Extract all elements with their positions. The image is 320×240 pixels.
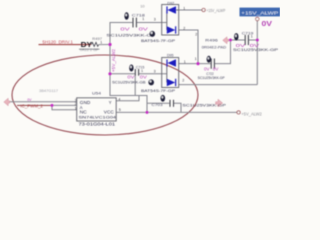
svg-text:1: 1 bbox=[183, 6, 185, 10]
svg-text:SN74LVC1G04: SN74LVC1G04 bbox=[79, 115, 118, 120]
svg-text:1: 1 bbox=[184, 60, 186, 64]
svg-text:U54: U54 bbox=[92, 91, 102, 96]
svg-text:0V: 0V bbox=[27, 98, 32, 102]
svg-text:IC_PWM_2: IC_PWM_2 bbox=[20, 104, 43, 109]
svg-text:1: 1 bbox=[100, 41, 102, 45]
svg-text:+5V_ALW2: +5V_ALW2 bbox=[111, 48, 116, 72]
svg-text:3: 3 bbox=[154, 70, 156, 74]
svg-text:BAT54S-7F-GP: BAT54S-7F-GP bbox=[141, 88, 175, 93]
svg-text:SC1U25V3KK-GB: SC1U25V3KK-GB bbox=[112, 80, 146, 85]
svg-text:0V: 0V bbox=[213, 67, 219, 73]
svg-text:SC1U25V3KK-GP: SC1U25V3KK-GP bbox=[233, 47, 278, 52]
svg-text:2: 2 bbox=[182, 79, 184, 83]
svg-text:+5V_ALW2: +5V_ALW2 bbox=[241, 111, 262, 116]
svg-text:5H120_DRIV.1: 5H120_DRIV.1 bbox=[42, 40, 73, 45]
svg-text:2: 2 bbox=[183, 26, 185, 30]
svg-text:0V: 0V bbox=[262, 19, 274, 28]
svg-text:R496: R496 bbox=[205, 38, 219, 43]
svg-text:SC1U25V3KK-GP: SC1U25V3KK-GP bbox=[182, 102, 226, 107]
svg-text:10: 10 bbox=[140, 3, 145, 8]
svg-text:2: 2 bbox=[195, 32, 197, 36]
svg-text:Y: Y bbox=[109, 100, 112, 105]
svg-text:C703: C703 bbox=[152, 102, 164, 107]
svg-text:BAT54S-7F-GP: BAT54S-7F-GP bbox=[141, 38, 175, 43]
svg-text:VCC: VCC bbox=[104, 109, 114, 114]
svg-text:SC1U25V3KK-C: SC1U25V3KK-C bbox=[106, 33, 151, 38]
svg-text:D92: D92 bbox=[167, 0, 175, 5]
svg-text:1: 1 bbox=[142, 17, 144, 21]
svg-text:73-01G04-L01: 73-01G04-L01 bbox=[79, 122, 116, 127]
svg-text:3B47G117: 3B47G117 bbox=[39, 88, 58, 93]
svg-text:1: 1 bbox=[195, 57, 197, 61]
svg-text:+15V_ALWP: +15V_ALWP bbox=[241, 11, 278, 16]
svg-text:4: 4 bbox=[118, 97, 120, 101]
svg-text:1: 1 bbox=[251, 34, 253, 38]
svg-text:C722: C722 bbox=[206, 71, 214, 76]
svg-text:3: 3 bbox=[154, 17, 156, 21]
svg-text:1: 1 bbox=[141, 69, 143, 73]
svg-text:+15V_ALWP: +15V_ALWP bbox=[206, 8, 225, 13]
svg-text:DY: DY bbox=[81, 40, 93, 49]
svg-text:0R04E2-PAD: 0R04E2-PAD bbox=[202, 44, 227, 49]
svg-text:NC: NC bbox=[80, 109, 87, 114]
svg-text:1: 1 bbox=[75, 106, 77, 110]
svg-text:5: 5 bbox=[119, 108, 121, 112]
svg-text:D95: D95 bbox=[167, 53, 174, 58]
